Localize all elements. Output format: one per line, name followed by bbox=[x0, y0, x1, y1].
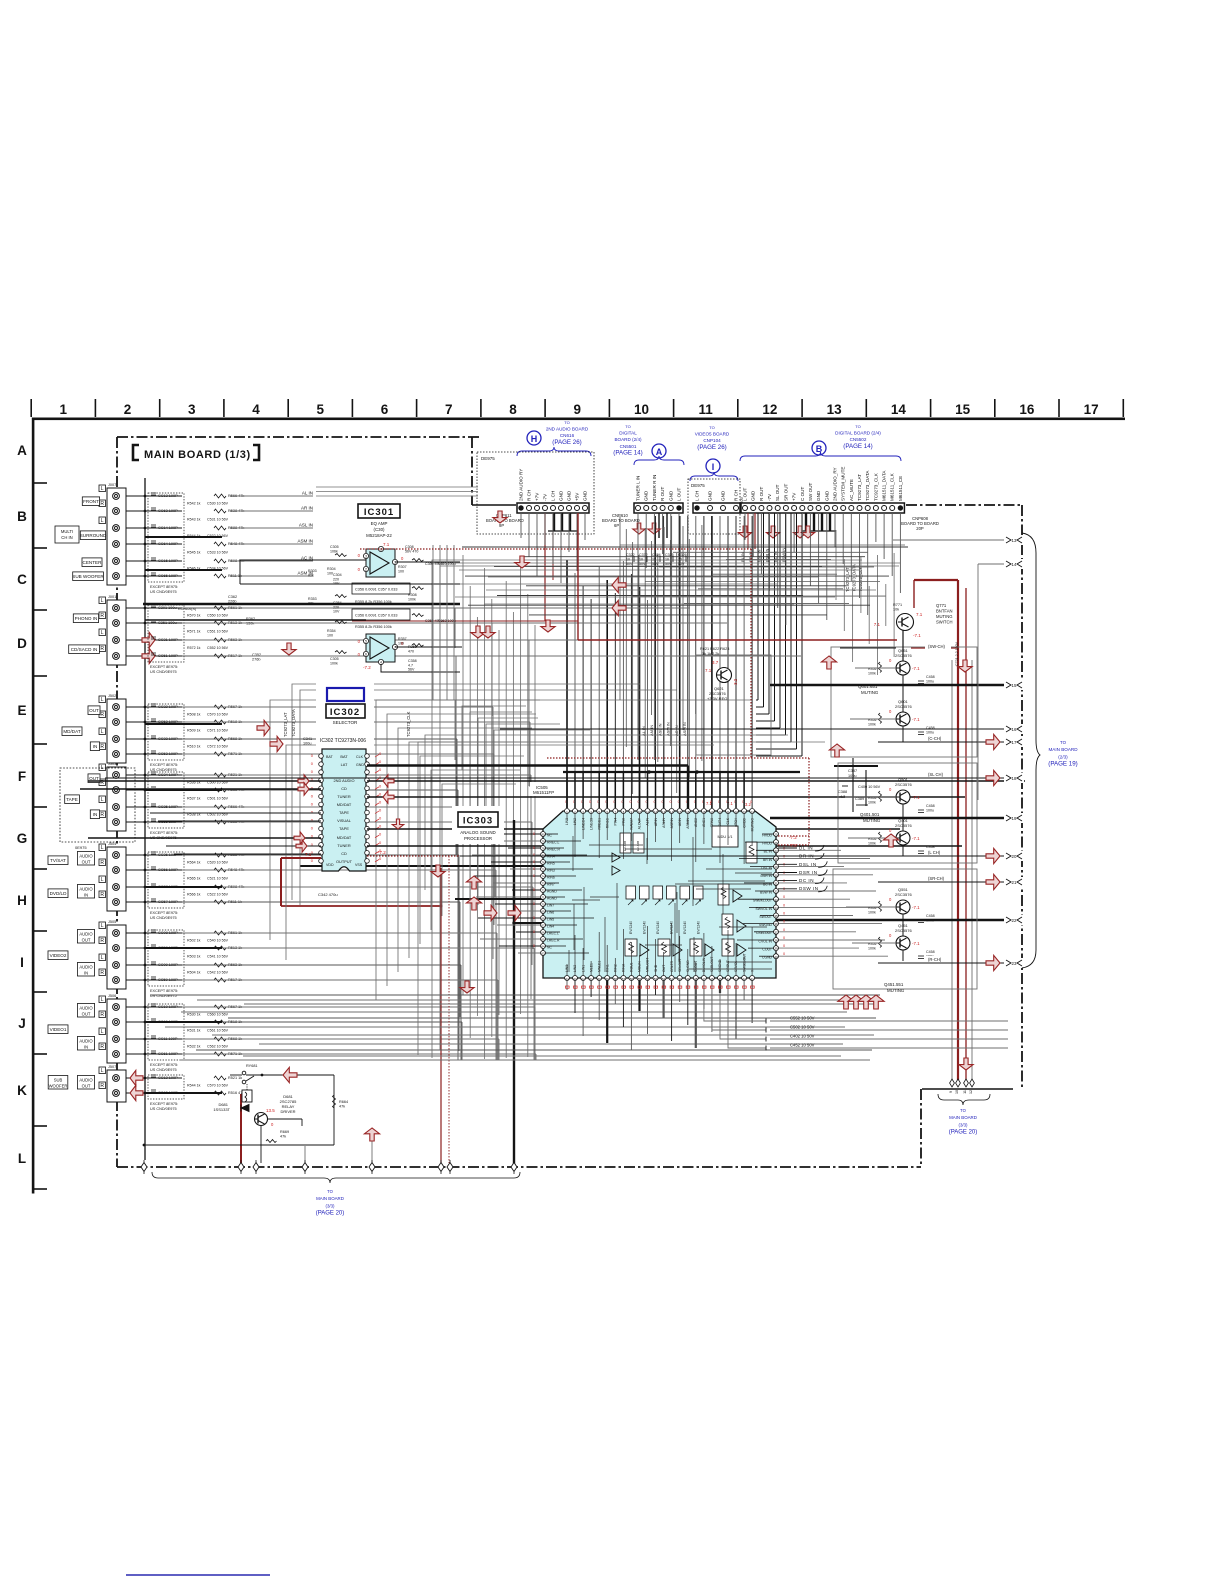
svg-text:55: 55 bbox=[638, 977, 642, 981]
selector IC302 chip bbox=[311, 749, 382, 871]
svg-text:C540 10 56V: C540 10 56V bbox=[207, 939, 229, 943]
svg-text:(PAGE 26): (PAGE 26) bbox=[697, 444, 726, 451]
svg-text:0: 0 bbox=[783, 895, 785, 899]
svg-text:L: L bbox=[101, 1068, 104, 1074]
svg-text:R509 1k: R509 1k bbox=[187, 729, 201, 733]
svg-text:65: 65 bbox=[541, 938, 545, 942]
svg-text:SWITCH: SWITCH bbox=[936, 620, 953, 625]
bypass capacitor cluster near J503 bbox=[148, 772, 244, 840]
svg-text:100u: 100u bbox=[303, 742, 311, 746]
svg-text:100k: 100k bbox=[868, 947, 876, 951]
svg-text:100u: 100u bbox=[848, 774, 856, 778]
svg-text:100u: 100u bbox=[926, 731, 934, 735]
svg-text:J001: J001 bbox=[108, 595, 116, 599]
svg-text:76: 76 bbox=[541, 861, 545, 865]
svg-text:4: 4 bbox=[252, 402, 260, 417]
svg-text:AUDIO: AUDIO bbox=[79, 1039, 93, 1044]
svg-text:B: B bbox=[17, 509, 27, 524]
svg-text:0: 0 bbox=[670, 800, 672, 804]
svg-text:100: 100 bbox=[398, 641, 404, 645]
svg-text:CC61 100P: CC61 100P bbox=[158, 1052, 178, 1056]
svg-text:J507: J507 bbox=[108, 1065, 116, 1069]
svg-text:MUTING: MUTING bbox=[936, 614, 953, 619]
svg-text:C301 100u: C301 100u bbox=[158, 606, 177, 610]
svg-text:100: 100 bbox=[327, 633, 333, 637]
mid vertical trunk bus bbox=[300, 555, 543, 1166]
connector J504 jacks bbox=[48, 842, 126, 911]
svg-text:AL IN: AL IN bbox=[302, 491, 313, 496]
svg-text:68: 68 bbox=[541, 917, 545, 921]
svg-text:6: 6 bbox=[381, 402, 389, 417]
svg-text:R: R bbox=[100, 1012, 104, 1018]
svg-text:R570 1k: R570 1k bbox=[187, 614, 201, 618]
svg-text:MUTING: MUTING bbox=[887, 988, 905, 993]
svg-text:IN: IN bbox=[93, 744, 98, 749]
svg-text:7.1: 7.1 bbox=[705, 668, 712, 673]
svg-text:70: 70 bbox=[541, 903, 545, 907]
svg-text:22: 22 bbox=[1012, 918, 1017, 923]
svg-text:-7.1: -7.1 bbox=[912, 905, 920, 910]
svg-text:TV/SAT: TV/SAT bbox=[50, 858, 66, 863]
svg-text:(3/3): (3/3) bbox=[325, 1203, 335, 1208]
svg-text:LAT: LAT bbox=[341, 762, 348, 767]
svg-text:470: 470 bbox=[408, 649, 414, 653]
svg-text:36: 36 bbox=[774, 922, 778, 926]
svg-text:DE975: DE975 bbox=[691, 483, 705, 488]
svg-text:GND: GND bbox=[559, 490, 564, 501]
svg-text:WOOFER: WOOFER bbox=[49, 1084, 68, 1089]
svg-text:C452 10 50V: C452 10 50V bbox=[790, 1043, 815, 1048]
svg-text:C OUT: C OUT bbox=[800, 487, 805, 501]
svg-text:73: 73 bbox=[541, 882, 545, 886]
svg-text:7: 7 bbox=[445, 402, 453, 417]
svg-text:0: 0 bbox=[533, 874, 535, 878]
svg-text:CC08 100P: CC08 100P bbox=[158, 931, 178, 935]
svg-text:IN: IN bbox=[93, 812, 98, 817]
svg-text:46: 46 bbox=[710, 977, 714, 981]
svg-text:28: 28 bbox=[774, 857, 778, 861]
svg-text:L: L bbox=[101, 923, 104, 929]
svg-text:CN5501: CN5501 bbox=[620, 444, 637, 449]
svg-text:30: 30 bbox=[774, 873, 778, 877]
svg-text:EV-64B: EV-64B bbox=[636, 841, 640, 851]
svg-text:CC09 100P: CC09 100P bbox=[158, 963, 178, 967]
svg-text:26: 26 bbox=[774, 841, 778, 845]
svg-text:100u: 100u bbox=[926, 680, 934, 684]
svg-text:GND: GND bbox=[816, 490, 821, 501]
svg-text:53: 53 bbox=[654, 977, 658, 981]
svg-text:R: R bbox=[100, 1044, 104, 1050]
svg-text:US CND/0E975: US CND/0E975 bbox=[150, 768, 177, 772]
svg-text:79: 79 bbox=[541, 840, 545, 844]
title MAIN BOARD (1/3) bbox=[133, 445, 259, 461]
svg-text:DSR IN: DSR IN bbox=[799, 870, 818, 875]
svg-text:C541 10 56V: C541 10 56V bbox=[207, 955, 229, 959]
svg-text:DE975: DE975 bbox=[481, 456, 495, 461]
transistor Q401 muting bbox=[868, 818, 935, 854]
svg-text:C562 10 56V: C562 10 56V bbox=[207, 1045, 229, 1049]
svg-text:R531 1k: R531 1k bbox=[187, 1029, 201, 1033]
svg-text:R355 8.2k R356 100k: R355 8.2k R356 100k bbox=[355, 625, 392, 629]
svg-text:GND: GND bbox=[708, 490, 713, 501]
svg-text:R664: R664 bbox=[339, 1100, 348, 1104]
svg-text:51: 51 bbox=[670, 977, 674, 981]
svg-text:DSL IN: DSL IN bbox=[799, 862, 817, 867]
svg-text:US CND/0E975: US CND/0E975 bbox=[150, 916, 177, 920]
svg-text:EV/1240: EV/1240 bbox=[697, 921, 701, 934]
svg-text:R571 1k: R571 1k bbox=[187, 630, 201, 634]
svg-text:20: 20 bbox=[1012, 854, 1017, 859]
svg-text:12: 12 bbox=[969, 1090, 973, 1094]
svg-text:75: 75 bbox=[541, 868, 545, 872]
svg-text:L OUT: L OUT bbox=[743, 487, 748, 501]
svg-text:R544 1k: R544 1k bbox=[187, 1084, 201, 1088]
svg-text:3: 3 bbox=[365, 555, 367, 559]
wires below IC303 bbox=[543, 920, 1012, 1051]
svg-text:IN: IN bbox=[84, 971, 88, 976]
svg-text:C530 10 56V: C530 10 56V bbox=[207, 502, 229, 506]
svg-text:13.5: 13.5 bbox=[266, 1108, 275, 1113]
svg-text:M61511_DATA: M61511_DATA bbox=[882, 470, 887, 501]
svg-text:MAIN BOARD: MAIN BOARD bbox=[316, 1196, 344, 1201]
svg-text:BAT: BAT bbox=[326, 755, 334, 759]
svg-text:US CND/0E975: US CND/0E975 bbox=[150, 1068, 177, 1072]
svg-text:62: 62 bbox=[581, 977, 585, 981]
svg-text:R502 1k: R502 1k bbox=[187, 939, 201, 943]
svg-text:ANALOG SOUND: ANALOG SOUND bbox=[460, 830, 495, 835]
to main board 2/3 annotation bbox=[1022, 533, 1078, 968]
svg-text:100k: 100k bbox=[868, 672, 876, 676]
svg-text:CC56 100P: CC56 100P bbox=[158, 868, 178, 872]
svg-text:TC9273_DATA: TC9273_DATA bbox=[291, 709, 296, 737]
bypass capacitor cluster near J007 bbox=[148, 493, 244, 594]
svg-text:50V: 50V bbox=[665, 562, 672, 566]
transistor Q771 muting switch bbox=[874, 603, 959, 666]
page connector arrows 15-23 bbox=[1004, 535, 1024, 968]
svg-text:MD/DAT: MD/DAT bbox=[337, 802, 352, 807]
svg-text:100u: 100u bbox=[926, 919, 934, 923]
svg-text:R669: R669 bbox=[280, 1130, 289, 1134]
svg-text:CC13 100P: CC13 100P bbox=[158, 494, 178, 498]
svg-text:C372: C372 bbox=[639, 553, 648, 557]
svg-text:(L CH): (L CH) bbox=[928, 850, 941, 855]
svg-text:C351 100u: C351 100u bbox=[158, 621, 177, 625]
red arrows below connectors bbox=[738, 526, 751, 538]
svg-text:C458: C458 bbox=[926, 845, 935, 849]
svg-text:L: L bbox=[101, 997, 104, 1003]
center gray loop wires bbox=[455, 700, 590, 905]
svg-text:6P: 6P bbox=[614, 523, 619, 528]
svg-text:R503 1k: R503 1k bbox=[187, 955, 201, 959]
svg-text:33: 33 bbox=[774, 898, 778, 902]
svg-text:C: C bbox=[17, 572, 27, 587]
svg-text:R572 1k: R572 1k bbox=[187, 646, 201, 650]
svg-text:CH IN: CH IN bbox=[61, 535, 72, 540]
svg-text:2ND AUDIO RY: 2ND AUDIO RY bbox=[519, 469, 524, 501]
svg-text:+3.3V REG: +3.3V REG bbox=[707, 696, 727, 701]
svg-text:C325: C325 bbox=[665, 553, 674, 557]
svg-text:14: 14 bbox=[891, 402, 907, 417]
svg-text:(C30): (C30) bbox=[374, 527, 386, 532]
svg-text:(PAGE 20): (PAGE 20) bbox=[316, 1211, 345, 1217]
svg-text:13: 13 bbox=[1012, 538, 1017, 543]
svg-text:100k: 100k bbox=[408, 597, 416, 601]
svg-text:R565 1k: R565 1k bbox=[187, 877, 201, 881]
svg-text:-7V: -7V bbox=[543, 493, 548, 501]
svg-text:R532 1k: R532 1k bbox=[187, 1045, 201, 1049]
svg-text:US CND/0E975: US CND/0E975 bbox=[150, 590, 177, 594]
svg-text:10: 10 bbox=[678, 558, 682, 562]
svg-text:C356 0.0091 C357 0.033: C356 0.0091 C357 0.033 bbox=[355, 614, 397, 618]
svg-text:(R-CH): (R-CH) bbox=[928, 957, 942, 962]
IC303 internal blocks bbox=[612, 826, 757, 956]
serial control bus to IC303 bbox=[740, 513, 863, 756]
svg-text:17: 17 bbox=[1084, 402, 1099, 417]
svg-text:31: 31 bbox=[774, 882, 778, 886]
svg-text:R542 1k: R542 1k bbox=[187, 502, 201, 506]
svg-text:EV/1240: EV/1240 bbox=[643, 921, 647, 934]
svg-text:M61511_CE: M61511_CE bbox=[898, 476, 903, 501]
svg-text:10: 10 bbox=[626, 558, 630, 562]
svg-text:CD/SACD IN: CD/SACD IN bbox=[71, 647, 98, 652]
svg-text:TUNER R IN: TUNER R IN bbox=[652, 475, 657, 501]
connector annotation H to 2ND AUDIO BOARD bbox=[517, 420, 591, 456]
svg-text:M61511FP: M61511FP bbox=[533, 790, 554, 795]
svg-text:OUTPUT: OUTPUT bbox=[336, 859, 353, 864]
svg-text:100k: 100k bbox=[868, 723, 876, 727]
svg-text:C322: C322 bbox=[626, 553, 635, 557]
svg-text:50V: 50V bbox=[639, 562, 646, 566]
IC301 wires bbox=[143, 545, 462, 700]
svg-text:50V: 50V bbox=[652, 562, 659, 566]
svg-text:CC51 100P: CC51 100P bbox=[158, 654, 178, 658]
svg-text:+5V: +5V bbox=[575, 492, 580, 501]
svg-text:CC57 100P: CC57 100P bbox=[158, 900, 178, 904]
svg-text:EXCEPT 8E975:: EXCEPT 8E975: bbox=[150, 1102, 178, 1106]
svg-text:276b: 276b bbox=[252, 658, 260, 662]
multi-ch input bundle top bbox=[316, 487, 478, 496]
capacitor C342 bbox=[318, 892, 338, 897]
IC302 rotated net labels bbox=[283, 709, 411, 737]
svg-text:R543 1k: R543 1k bbox=[187, 518, 201, 522]
bypass capacitor cluster near J505 bbox=[148, 930, 242, 998]
svg-text:H: H bbox=[531, 434, 538, 444]
capacitor row C322-C325 bbox=[626, 553, 687, 566]
svg-text:C458: C458 bbox=[926, 950, 935, 954]
svg-text:EXCEPT 8E975:: EXCEPT 8E975: bbox=[150, 911, 178, 915]
svg-text:15: 15 bbox=[1012, 683, 1017, 688]
svg-text:2: 2 bbox=[124, 402, 132, 417]
svg-text:BNTFAN: BNTFAN bbox=[936, 609, 953, 614]
svg-text:R: R bbox=[100, 938, 104, 944]
svg-text:F: F bbox=[18, 769, 26, 784]
svg-text:L: L bbox=[101, 955, 104, 961]
svg-text:OUT: OUT bbox=[82, 938, 91, 943]
svg-text:47k: 47k bbox=[339, 1105, 345, 1109]
connector CNP611 board-to-board 9P bbox=[477, 452, 594, 534]
svg-text:0: 0 bbox=[783, 912, 785, 916]
transistor Q651 muting bbox=[868, 648, 935, 684]
svg-text:L: L bbox=[101, 598, 104, 604]
svg-text:AM IN: AM IN bbox=[649, 725, 654, 736]
svg-text:Q451.551: Q451.551 bbox=[884, 982, 904, 987]
svg-text:56V: 56V bbox=[408, 668, 415, 672]
svg-text:CC15 100P: CC15 100P bbox=[158, 559, 178, 563]
svg-text:AR IN: AR IN bbox=[301, 506, 313, 511]
svg-text:-7.1: -7.1 bbox=[913, 633, 921, 638]
svg-text:ASL IN: ASL IN bbox=[299, 523, 313, 528]
svg-text:IN: IN bbox=[84, 893, 88, 898]
svg-text:PHONO IN: PHONO IN bbox=[75, 616, 98, 621]
svg-text:56: 56 bbox=[630, 977, 634, 981]
scattered red arrows middle bbox=[612, 577, 626, 592]
svg-text:AC_MUTE: AC_MUTE bbox=[849, 479, 854, 501]
svg-text:60: 60 bbox=[598, 977, 602, 981]
svg-text:1: 1 bbox=[60, 402, 68, 417]
svg-text:6: 6 bbox=[365, 653, 367, 657]
svg-text:-7.1: -7.1 bbox=[912, 795, 920, 800]
TAPE dotted box 0E975 bbox=[60, 768, 135, 850]
ground bus wire bbox=[144, 478, 146, 1160]
svg-text:2ND AUDIO BOARD: 2ND AUDIO BOARD bbox=[546, 427, 589, 432]
svg-text:OUT: OUT bbox=[82, 1084, 91, 1089]
svg-text:MAIN BOARD: MAIN BOARD bbox=[949, 1115, 977, 1120]
svg-text:2SC3576: 2SC3576 bbox=[895, 782, 912, 787]
svg-text:16: 16 bbox=[1012, 727, 1017, 732]
IC301 feedback network bbox=[308, 545, 456, 672]
svg-text:R545 1k: R545 1k bbox=[187, 551, 201, 555]
svg-text:CD: CD bbox=[341, 851, 347, 856]
svg-text:R510 1k: R510 1k bbox=[187, 745, 201, 749]
arrow to relay bbox=[283, 1067, 297, 1082]
svg-text:29: 29 bbox=[774, 865, 778, 869]
horizontal distribution bus lines bbox=[430, 563, 900, 604]
svg-text:(SW-CH): (SW-CH) bbox=[928, 644, 946, 649]
svg-text:7.1: 7.1 bbox=[383, 542, 390, 547]
svg-text:0: 0 bbox=[533, 916, 535, 920]
svg-text:J506: J506 bbox=[108, 994, 116, 998]
svg-text:CC10 100P: CC10 100P bbox=[158, 1005, 178, 1009]
svg-text:IN: IN bbox=[84, 1045, 88, 1050]
svg-text:21: 21 bbox=[1012, 880, 1017, 885]
svg-text:CC11 100P: CC11 100P bbox=[158, 1037, 178, 1041]
svg-text:C502 10 50V: C502 10 50V bbox=[790, 1025, 815, 1030]
relay RY661 contact bbox=[230, 1064, 334, 1084]
svg-text:-7.2: -7.2 bbox=[378, 850, 386, 855]
svg-text:MAIN BOARD: MAIN BOARD bbox=[1048, 747, 1078, 752]
IC303 right side net labels bbox=[778, 845, 827, 892]
svg-text:R OUT: R OUT bbox=[759, 487, 764, 501]
svg-text:DIGITAL BOARD (2/4): DIGITAL BOARD (2/4) bbox=[835, 431, 881, 436]
svg-text:0: 0 bbox=[533, 846, 535, 850]
svg-text:0: 0 bbox=[629, 800, 631, 804]
svg-text:TC9273_LAT: TC9273_LAT bbox=[845, 567, 850, 592]
svg-text:R537 1k: R537 1k bbox=[187, 797, 201, 801]
svg-text:10: 10 bbox=[634, 402, 649, 417]
connector J001 jacks bbox=[69, 595, 126, 665]
svg-text:45: 45 bbox=[718, 977, 722, 981]
red arrows into page connectors bbox=[986, 734, 1000, 749]
svg-text:EXCEPT 8E975:: EXCEPT 8E975: bbox=[150, 989, 178, 993]
svg-text:+7V: +7V bbox=[535, 492, 540, 501]
svg-text:64: 64 bbox=[541, 945, 545, 949]
jack input wires bbox=[126, 495, 182, 1095]
svg-text:L: L bbox=[101, 1029, 104, 1035]
svg-text:0: 0 bbox=[533, 860, 535, 864]
MULTI CH IN signal names bbox=[297, 491, 313, 576]
svg-text:VIDEO1: VIDEO1 bbox=[50, 1027, 67, 1032]
svg-text:100k: 100k bbox=[330, 661, 338, 665]
svg-text:10: 10 bbox=[665, 558, 669, 562]
power wires dark red bbox=[241, 513, 972, 1163]
svg-text:20P: 20P bbox=[916, 526, 924, 531]
svg-text:(SR-CH): (SR-CH) bbox=[928, 876, 945, 881]
svg-text:100k: 100k bbox=[868, 842, 876, 846]
svg-text:74: 74 bbox=[541, 875, 545, 879]
svg-text:US CND/0E975: US CND/0E975 bbox=[150, 670, 177, 674]
IC302 power wires bbox=[281, 850, 460, 906]
svg-text:TUNER: TUNER bbox=[337, 843, 351, 848]
svg-text:TC9273_LAT: TC9273_LAT bbox=[283, 712, 288, 737]
svg-text:7.1: 7.1 bbox=[916, 612, 923, 617]
muting circuit wires bbox=[105, 630, 1016, 963]
connector annotation A to DIGITAL BOARD bbox=[613, 424, 684, 465]
svg-text:10V: 10V bbox=[333, 610, 340, 614]
svg-text:SUB WOOFER: SUB WOOFER bbox=[72, 574, 104, 579]
svg-text:R: R bbox=[100, 812, 104, 818]
svg-text:EXCEPT 8E975:: EXCEPT 8E975: bbox=[150, 585, 178, 589]
svg-text:CC14 100P: CC14 100P bbox=[158, 526, 178, 530]
svg-text:TC9273_CLK: TC9273_CLK bbox=[873, 472, 878, 501]
svg-text:EXCEPT 8E975:: EXCEPT 8E975: bbox=[150, 763, 178, 767]
svg-text:Q771: Q771 bbox=[936, 603, 947, 608]
svg-text:59: 59 bbox=[606, 977, 610, 981]
svg-text:AUDIO: AUDIO bbox=[79, 932, 93, 937]
wire bus above IC303 bbox=[567, 516, 752, 808]
svg-text:L: L bbox=[101, 630, 104, 636]
svg-text:EV/1240: EV/1240 bbox=[656, 921, 660, 934]
svg-text:63: 63 bbox=[541, 952, 545, 956]
svg-text:R: R bbox=[100, 712, 104, 718]
board border jog at connectors bbox=[472, 437, 516, 505]
svg-text:CC64 100P: CC64 100P bbox=[158, 542, 178, 546]
svg-text:AUDIO: AUDIO bbox=[79, 854, 93, 859]
svg-text:TO: TO bbox=[960, 1108, 966, 1113]
svg-text:69: 69 bbox=[541, 910, 545, 914]
svg-text:7.1: 7.1 bbox=[305, 852, 312, 857]
svg-text:10: 10 bbox=[639, 558, 643, 562]
svg-text:-7.1: -7.1 bbox=[912, 717, 920, 722]
svg-text:TAPE: TAPE bbox=[339, 810, 349, 815]
bypass capacitor cluster near J502 bbox=[148, 704, 242, 772]
svg-text:RY681: RY681 bbox=[246, 1064, 258, 1068]
svg-text:VSS: VSS bbox=[355, 863, 363, 867]
svg-text:C362: C362 bbox=[228, 595, 237, 599]
svg-text:SYSTEM_MUTE: SYSTEM_MUTE bbox=[841, 467, 846, 501]
svg-text:(2/3): (2/3) bbox=[1058, 754, 1068, 759]
svg-text:EXCEPT 8E975:: EXCEPT 8E975: bbox=[150, 665, 178, 669]
bottom right page exits 9-12 bbox=[938, 1079, 990, 1105]
connector CNP608 board-to-board 20P bbox=[741, 467, 939, 531]
svg-text:TO: TO bbox=[1060, 740, 1067, 745]
svg-text:VDD: VDD bbox=[326, 863, 334, 867]
svg-text:TO: TO bbox=[709, 425, 714, 430]
svg-text:C458: C458 bbox=[926, 914, 935, 918]
svg-text:R: R bbox=[100, 892, 104, 898]
svg-text:TUNER L IN: TUNER L IN bbox=[636, 476, 641, 501]
svg-text:I: I bbox=[712, 462, 715, 472]
svg-text:CC65 100P: CC65 100P bbox=[158, 574, 178, 578]
